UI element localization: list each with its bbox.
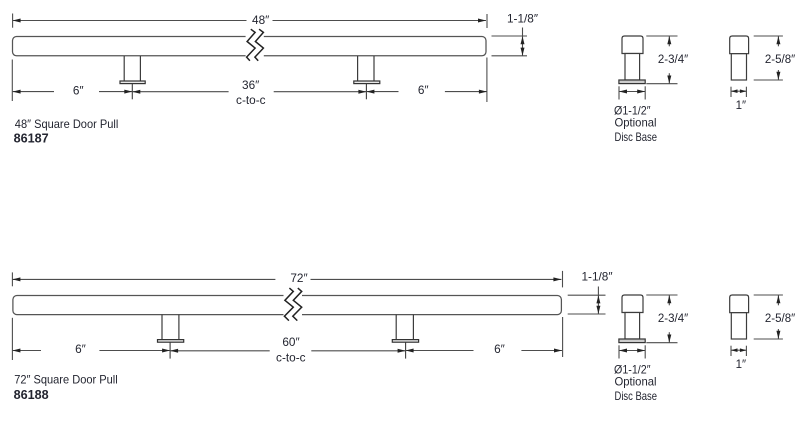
lower 2-5/8 dim bottom extension [754, 338, 783, 340]
lower 2-3/4 dim top arrow [667, 295, 671, 305]
72-inch dim left extension tick [11, 272, 13, 286]
left extension line below bar [11, 60, 13, 102]
48-inch dimension line right segment [273, 19, 487, 23]
6-inch dim lower-left segment a [12, 349, 41, 353]
6-inch dim lower-right segment a [406, 349, 474, 353]
left extension line below bar 2 [11, 318, 13, 360]
post 4 left edge [395, 315, 397, 340]
60-inch c-to-c dim segment b [311, 349, 405, 353]
post 3 left edge [161, 315, 163, 340]
48-inch dim left extension tick [12, 14, 14, 28]
lower disc base [619, 339, 645, 343]
6-inch dim left segment a [13, 90, 54, 94]
upper 2-3/4 dim top arrow [667, 36, 671, 46]
lower 1-inch dim right tick [745, 346, 747, 356]
1-1/8 dim leader and arrows [521, 28, 525, 56]
post 2 left edge [357, 56, 359, 81]
upper 1-inch dim left tick [730, 87, 732, 97]
1-1/8 dim bottom extension line [492, 55, 528, 57]
upper 2-3/4 dim bottom arrow [667, 73, 671, 83]
upper 2-5/8 dim top extension [754, 35, 783, 37]
break gap white-out [246, 30, 264, 62]
svg-text:c-to-c: c-to-c [236, 93, 266, 107]
lower square post stem [731, 313, 746, 339]
upper disc base [619, 80, 645, 84]
svg-text:86187: 86187 [14, 132, 49, 146]
post 4 flange [392, 340, 418, 343]
6-inch dim lower-left segment b [99, 349, 170, 353]
36-inch c-to-c dim segment a [132, 90, 228, 94]
svg-text:60″: 60″ [282, 335, 299, 349]
svg-text:1-1/8″: 1-1/8″ [507, 12, 538, 26]
break zigzag left line 2 [284, 288, 293, 321]
right extension line below bar [486, 58, 488, 103]
1-1/8 dim top extension line [492, 35, 528, 37]
lower disc dia dim line [619, 349, 645, 353]
svg-text:6″: 6″ [494, 342, 505, 356]
upper square post stem [731, 54, 746, 80]
svg-text:2-5/8″: 2-5/8″ [765, 54, 795, 66]
6-inch dim right segment a [366, 90, 398, 94]
72-inch dim right extension tick [562, 271, 564, 288]
72-inch pull bar body [13, 296, 562, 315]
upper 1-inch dim line [731, 89, 746, 93]
break zigzag left line [247, 29, 256, 61]
lower 2-3/4 dim bottom extension [646, 342, 677, 344]
lower 2-5/8 dim top extension [754, 294, 783, 296]
svg-text:Disc Base: Disc Base [615, 130, 658, 144]
upper disc dia dim right tick [644, 86, 646, 99]
svg-text:6″: 6″ [75, 342, 86, 356]
60-inch c-to-c dim segment a [170, 349, 270, 353]
post 1 flange [120, 81, 145, 84]
lower 2-3/4 dim bottom arrow [667, 332, 671, 342]
post 3 flange [158, 340, 184, 343]
svg-text:1″: 1″ [736, 100, 746, 112]
svg-text:48″: 48″ [252, 13, 269, 27]
upper 2-5/8 dim top arrow [776, 36, 780, 46]
svg-text:6″: 6″ [418, 83, 429, 97]
1-1/8 dim bottom extension line 2 [568, 313, 606, 315]
upper 2-5/8 dim bottom extension [754, 79, 783, 81]
lower disc dia dim left tick [618, 345, 620, 358]
post 2 center line [365, 84, 367, 100]
upper square post cap [730, 36, 749, 54]
lower square post cap [730, 295, 749, 313]
break zigzag right line [255, 29, 264, 61]
48-inch dim right extension tick [486, 14, 488, 28]
svg-text:Optional: Optional [615, 375, 657, 389]
upper disc dia dim left tick [618, 86, 620, 99]
break gap white-out 2 [284, 289, 303, 321]
post 2 right edge [373, 56, 375, 81]
svg-text:72″ Square Door Pull: 72″ Square Door Pull [14, 373, 118, 387]
48-inch dimension line left segment [13, 19, 247, 23]
post 1 left edge [123, 56, 125, 81]
svg-text:2-5/8″: 2-5/8″ [765, 313, 795, 325]
upper 2-3/4 dim bottom extension [646, 83, 677, 85]
svg-text:48″ Square Door Pull: 48″ Square Door Pull [15, 117, 119, 131]
lower 2-5/8 dim top arrow [776, 295, 780, 305]
right extension line below bar 2 [562, 317, 564, 357]
post 1 right edge [139, 56, 141, 81]
svg-text:72″: 72″ [290, 271, 307, 285]
upper 2-5/8 dim bottom arrow [776, 70, 780, 80]
svg-text:Optional: Optional [615, 116, 657, 130]
svg-text:1-1/8″: 1-1/8″ [581, 270, 612, 284]
post 4 center line [405, 342, 407, 358]
lower 1-inch dim left tick [730, 346, 732, 356]
post 3 center line [169, 342, 171, 358]
lower 2-3/4 dim top extension [646, 294, 677, 296]
lower 1-inch dim line [731, 348, 746, 352]
72-inch dimension line right segment [311, 277, 562, 281]
svg-text:Disc Base: Disc Base [615, 389, 658, 403]
lower disc-base post cap [622, 295, 643, 313]
svg-text:2-3/4″: 2-3/4″ [658, 313, 688, 325]
svg-text:86188: 86188 [14, 388, 49, 402]
upper disc dia dim line [619, 90, 645, 94]
6-inch dim lower-right segment b [521, 349, 562, 353]
svg-text:36″: 36″ [242, 78, 259, 92]
svg-text:6″: 6″ [73, 84, 84, 98]
1-1/8 dim leader and arrows 2 [596, 287, 600, 314]
svg-text:c-to-c: c-to-c [276, 351, 306, 365]
post 1 center line [131, 84, 133, 100]
lower disc-base post stem [625, 313, 640, 340]
upper 1-inch dim right tick [745, 87, 747, 97]
36-inch c-to-c dim segment b [274, 90, 367, 94]
post 3 right edge [178, 315, 180, 340]
post 4 right edge [412, 315, 414, 340]
svg-text:2-3/4″: 2-3/4″ [658, 54, 688, 66]
post 2 flange [354, 81, 380, 84]
48-inch pull bar body [13, 37, 487, 56]
lower disc dia dim right tick [644, 345, 646, 358]
break zigzag right line 2 [293, 288, 302, 321]
6-inch dim right segment b [445, 90, 487, 94]
upper 2-3/4 dim top extension [646, 35, 677, 37]
svg-text:1″: 1″ [736, 359, 746, 371]
1-1/8 dim top extension line 2 [568, 294, 606, 296]
72-inch dimension line left segment [12, 277, 275, 281]
lower 2-5/8 dim bottom arrow [776, 329, 780, 339]
6-inch dim left segment b [99, 90, 132, 94]
upper disc-base post stem [625, 54, 640, 81]
upper disc-base post cap [622, 36, 643, 54]
